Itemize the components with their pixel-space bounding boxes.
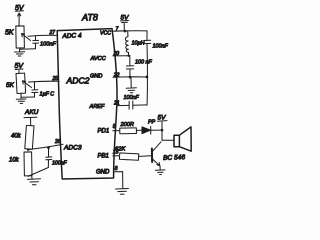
potentiometer P2 5K [16,73,32,93]
5V supply top right [121,15,130,31]
svg-text:PD1: PD1 [98,129,110,135]
wire 5V node to speaker [162,130,174,140]
svg-text:8: 8 [115,166,118,172]
potentiometer P1 5K [16,26,31,48]
AKU input terminal [24,109,39,126]
5V supply right [158,115,168,130]
svg-text:10µH: 10µH [132,41,145,47]
svg-text:100 nF: 100 nF [135,60,152,66]
ground under Q1 emitter [155,170,165,175]
wire P1 bottom to cap bottom [20,48,36,49]
svg-text:AREF: AREF [89,104,106,110]
svg-text:PP: PP [148,120,156,126]
wire GND8 to ground [114,172,123,189]
capacitor C1 100nF [33,36,39,49]
rail top segment [146,31,148,40]
svg-text:100nF: 100nF [40,42,56,48]
svg-text:5K: 5K [6,82,15,89]
resistor R3 200R [120,128,137,134]
node junction cap [47,146,50,149]
svg-text:100nF: 100nF [153,44,169,50]
svg-text:1µF C: 1µF C [40,92,55,98]
ground under P1 [15,49,25,56]
wire AVCC [113,55,130,57]
resistor R2 10k [24,152,32,176]
ground under GND row [126,77,136,93]
wire VCC to rail [113,30,148,33]
wire AREF [118,104,129,106]
wire node to ADC3 [28,144,63,149]
capacitor C6 100nF AVCC [126,56,133,77]
wire GND row to rail [113,76,147,78]
svg-text:GND: GND [90,74,102,80]
ground under R2 [28,176,41,185]
svg-text:AKU: AKU [24,109,39,116]
diode D1 [142,126,162,134]
svg-text:40k: 40k [11,134,22,140]
junction GND rail [146,76,149,79]
rail bottom segment [146,44,149,106]
svg-text:ADC 4: ADC 4 [61,32,82,40]
svg-text:GND: GND [96,170,110,176]
svg-text:5: 5 [113,124,116,130]
svg-text:5K: 5K [5,30,14,37]
capacitor C5 100nF rail [144,40,151,43]
resistor R4 62K [119,153,138,160]
transistor Q1 BC546 [152,142,161,170]
capacitor C4 100nF AREF [129,101,147,109]
svg-text:100nF: 100nF [52,161,68,167]
junction VCC node [124,30,127,33]
node A junction [27,148,30,151]
wire R2 bottom to cap bottom [28,168,48,177]
IC U1 ATmega8 body [57,29,117,179]
svg-text:ADC3: ADC3 [63,145,82,152]
junction AVCC inductor [127,55,129,57]
wire P2 bottom [21,93,35,97]
svg-text:AVCC: AVCC [90,56,107,62]
capacitor C2 1uF [32,82,38,97]
svg-text:VCC: VCC [100,31,111,37]
capacitor C3 100nF [46,147,52,168]
junction GND cap [129,76,132,79]
wire to diode [137,129,142,131]
junction diode 5V [161,129,164,132]
svg-text:AT8: AT8 [81,13,98,23]
wire P1 wiper to ADC4 [28,34,57,37]
ground main [116,189,129,195]
5V supply label pot2 [15,63,25,73]
svg-text:27: 27 [49,30,56,36]
resistor R1 40k [25,125,34,149]
5V supply label top-left [15,5,25,26]
svg-text:100nF: 100nF [124,95,140,101]
speaker SP1 [174,127,191,151]
svg-text:PB1: PB1 [98,154,109,160]
svg-text:10k: 10k [9,158,20,164]
svg-text:25: 25 [52,76,59,82]
svg-text:BC 546: BC 546 [163,154,186,162]
inductor L1 10uH [125,31,128,55]
svg-text:26: 26 [54,139,61,145]
wire PD1 to resistor [113,130,120,132]
svg-text:ADC2: ADC2 [66,76,90,86]
wire to transistor base [139,155,151,158]
ground under P2 [16,97,26,103]
wire PB1 to resistor [113,155,120,157]
wire P2 wiper to ADC2 [29,80,60,83]
svg-text:62K: 62K [115,147,126,153]
svg-text:200R: 200R [120,122,134,128]
